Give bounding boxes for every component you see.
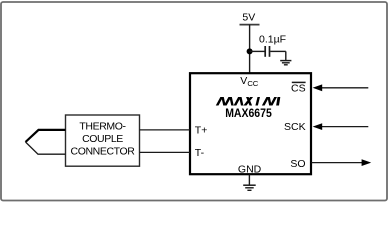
svg-text:SCK: SCK bbox=[284, 121, 306, 133]
svg-text:GND: GND bbox=[238, 164, 262, 176]
svg-text:SO: SO bbox=[290, 158, 305, 170]
svg-text:T-: T- bbox=[195, 147, 205, 159]
svg-text:THERMO-: THERMO- bbox=[79, 120, 126, 132]
svg-text:COUPLE: COUPLE bbox=[82, 133, 123, 145]
svg-text:CS: CS bbox=[291, 83, 306, 95]
svg-text:MAX6675: MAX6675 bbox=[225, 106, 272, 120]
svg-text:0.1µF: 0.1µF bbox=[259, 33, 286, 45]
svg-text:T+: T+ bbox=[195, 124, 208, 136]
svg-text:5V: 5V bbox=[242, 12, 255, 24]
svg-text:CONNECTOR: CONNECTOR bbox=[71, 146, 136, 158]
